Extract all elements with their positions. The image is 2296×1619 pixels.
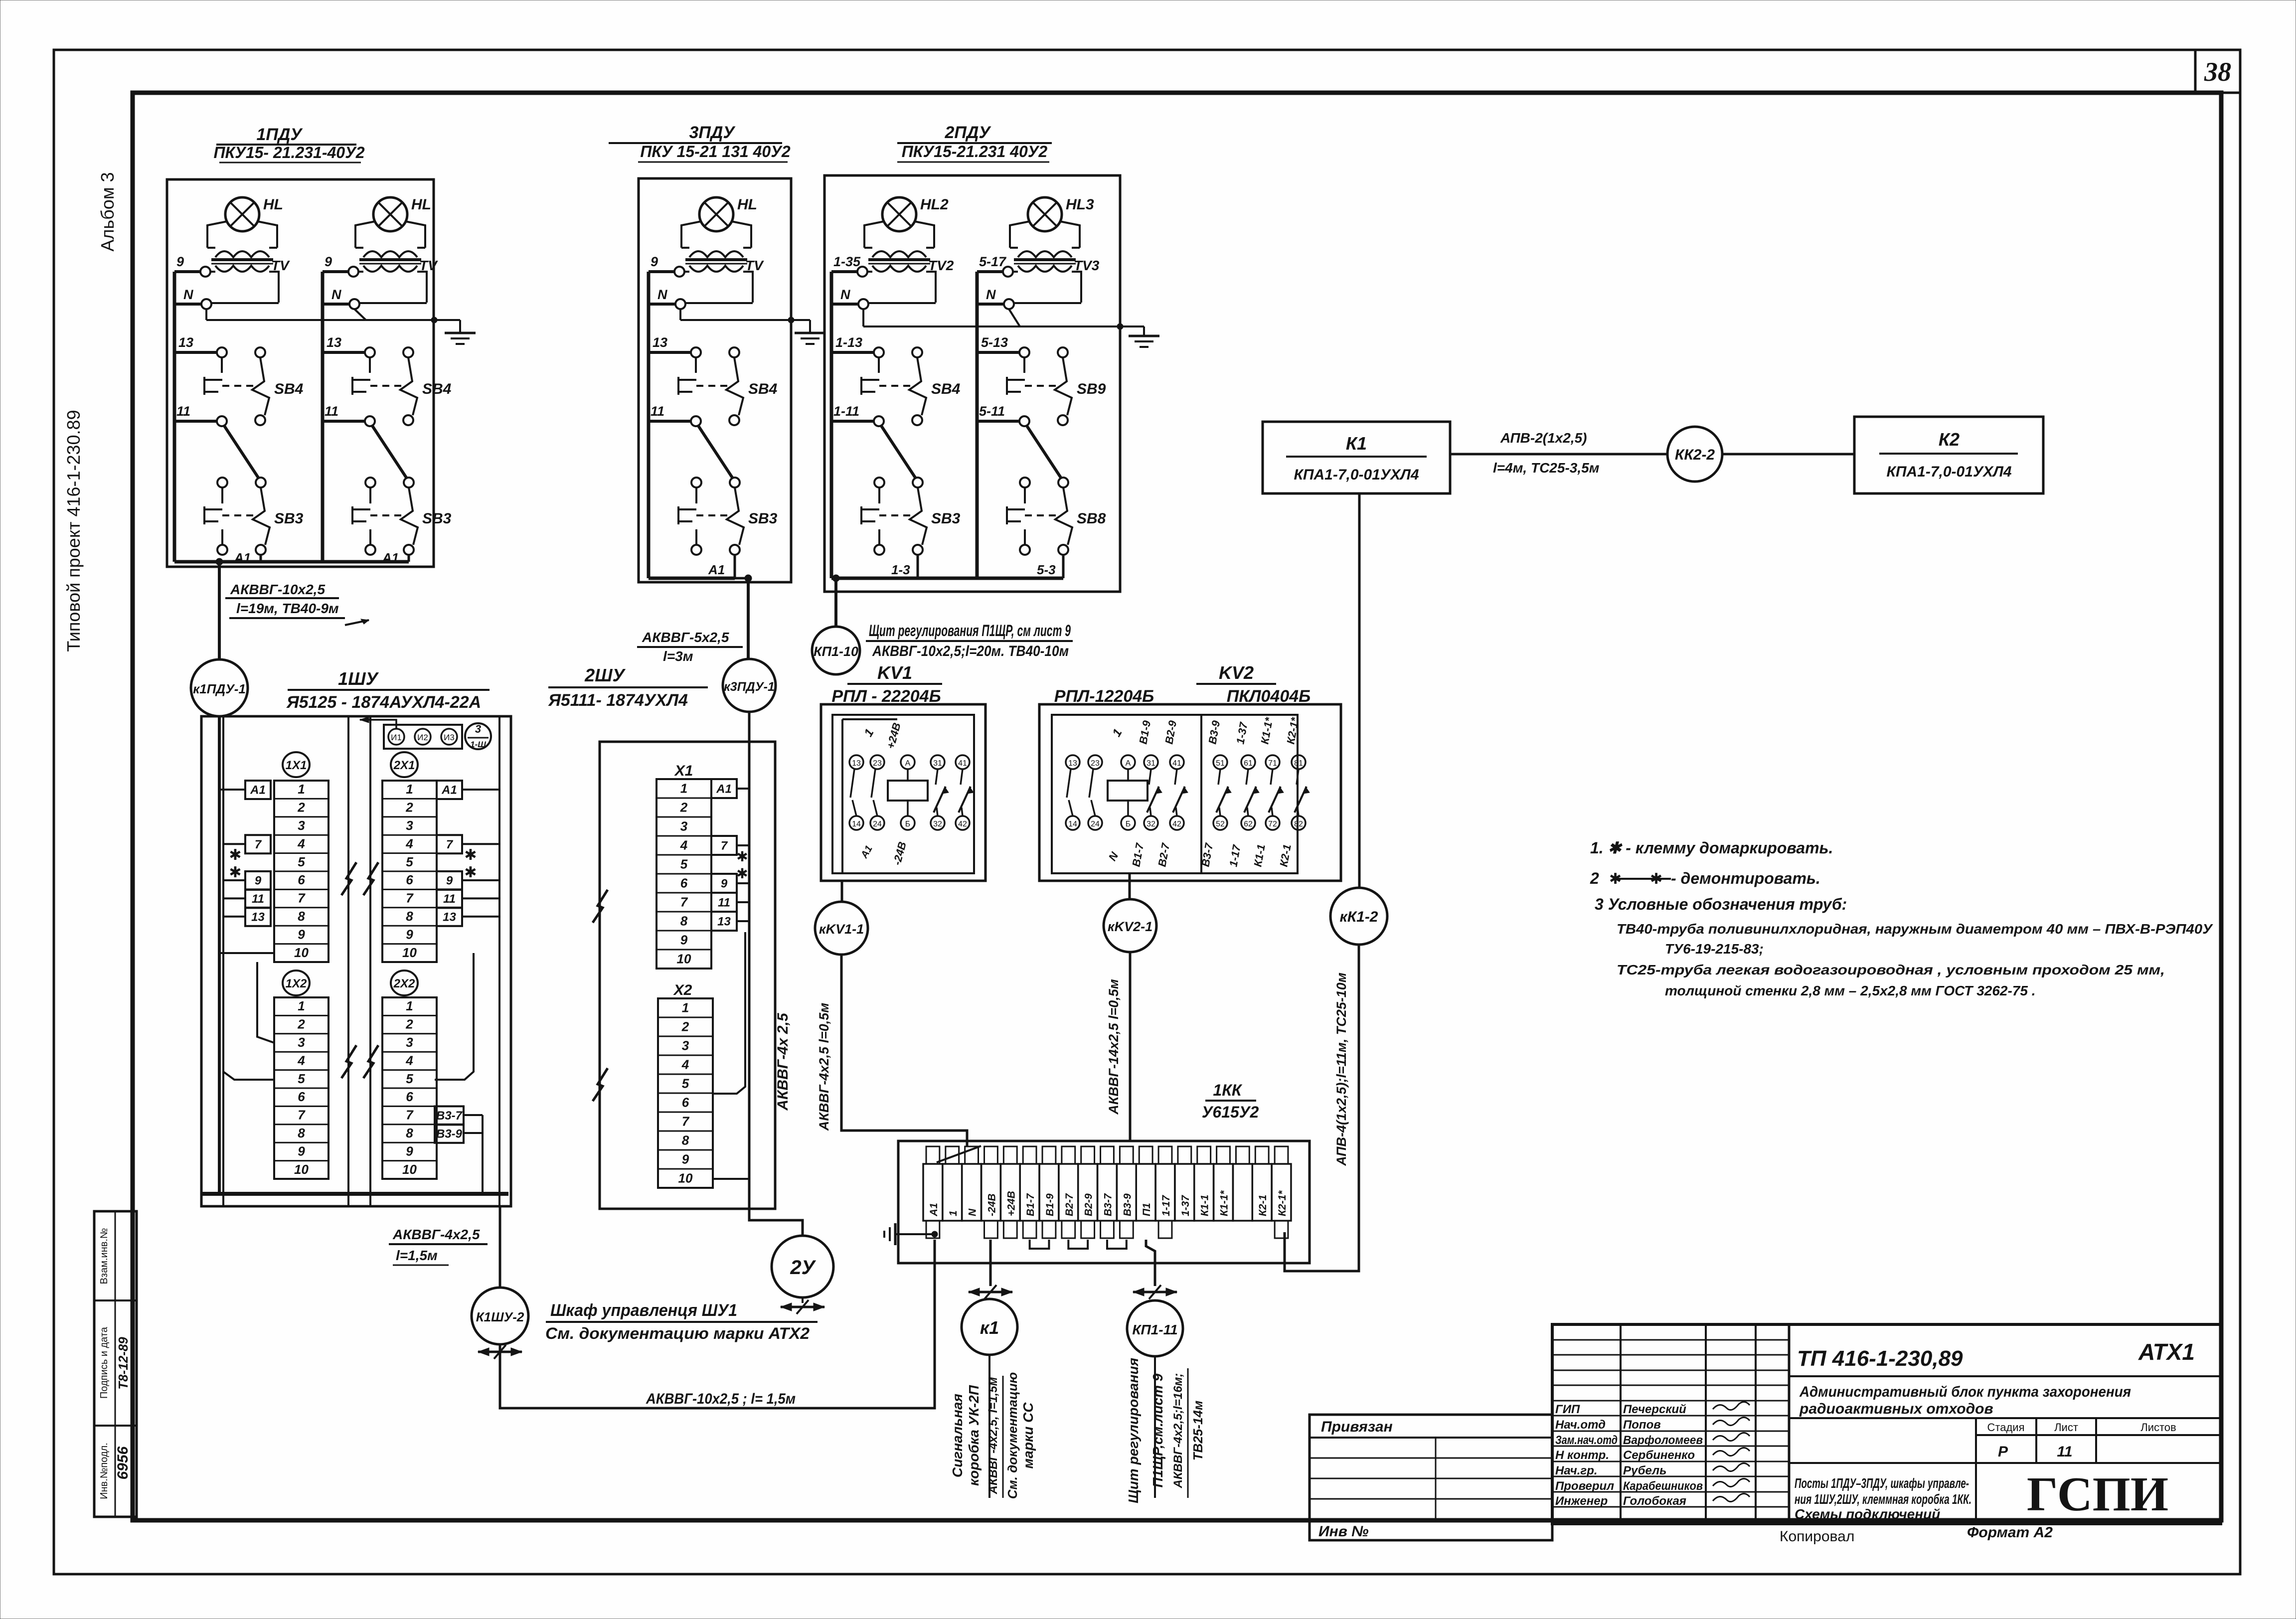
svg-text:11: 11 bbox=[443, 892, 456, 906]
svg-text:11: 11 bbox=[651, 404, 664, 419]
svg-text:АКВВГ-4х2,5 l=0,5м: АКВВГ-4х2,5 l=0,5м bbox=[817, 1003, 831, 1132]
svg-text:24: 24 bbox=[873, 820, 882, 828]
terminal tag 7 (1X1) bbox=[245, 835, 271, 853]
svg-text:SB9: SB9 bbox=[1077, 381, 1106, 397]
ground (1KK) bbox=[884, 1223, 938, 1245]
svg-text:1: 1 bbox=[298, 782, 305, 797]
svg-text:1: 1 bbox=[680, 781, 687, 796]
svg-text:7: 7 bbox=[255, 838, 262, 851]
svg-text:14: 14 bbox=[1068, 820, 1077, 828]
terminal tag 11 (2SHU X1) bbox=[711, 893, 737, 912]
svg-text:1. ✱ - клемму домаркировать.: 1. ✱ - клемму домаркировать. bbox=[1590, 839, 1833, 857]
svg-text:3: 3 bbox=[406, 1035, 413, 1050]
svg-text:П1: П1 bbox=[1141, 1203, 1152, 1216]
terminal tag A1 (1X1) bbox=[245, 781, 271, 799]
terminal tag A1 (2SHU X1) bbox=[711, 779, 737, 798]
svg-text:1-37: 1-37 bbox=[1180, 1195, 1191, 1216]
svg-text:5-3: 5-3 bbox=[1037, 562, 1056, 577]
wire cable drop 1PDU to K1PDU-1 bbox=[216, 558, 223, 659]
svg-text:62: 62 bbox=[1244, 820, 1253, 828]
svg-text:АПВ-2(1х2,5): АПВ-2(1х2,5) bbox=[1500, 430, 1587, 446]
svg-text:1ШУ: 1ШУ bbox=[338, 668, 379, 689]
svg-text:9: 9 bbox=[651, 254, 658, 269]
terminal strip 2X2 bbox=[382, 971, 437, 1179]
svg-text:SB4: SB4 bbox=[748, 381, 778, 397]
wire to ground 3PDU bbox=[791, 320, 810, 333]
svg-text:2: 2 bbox=[1590, 869, 1599, 887]
svg-text:кKV1-1: кKV1-1 bbox=[819, 922, 864, 937]
svg-text:-24В: -24В bbox=[986, 1193, 997, 1216]
terminal box 1KK enclosure bbox=[898, 1141, 1310, 1263]
svg-text:10: 10 bbox=[402, 1162, 417, 1177]
wire cable drop 2PDU to KP1-10 bbox=[832, 575, 839, 627]
svg-text:В3-9: В3-9 bbox=[436, 1127, 463, 1140]
label Shkaf upravleniya ShU1 bbox=[545, 1301, 818, 1342]
terminal strip 1X2 bbox=[274, 971, 328, 1179]
svg-text:7: 7 bbox=[680, 894, 688, 909]
svg-text:3ПДУ: 3ПДУ bbox=[689, 123, 736, 142]
svg-text:ГСПИ: ГСПИ bbox=[2027, 1467, 2168, 1521]
terminal tag 7 (2SHU X1) bbox=[711, 836, 737, 855]
wire K1 drop to KK1-2 bbox=[1358, 493, 1361, 888]
svg-text:Б: Б bbox=[905, 820, 911, 828]
svg-text:ПКУ15-21.231 40У2: ПКУ15-21.231 40У2 bbox=[902, 143, 1048, 161]
terminal tag 13 (2X1) bbox=[437, 908, 462, 926]
svg-text:13: 13 bbox=[327, 335, 341, 350]
svg-text:N: N bbox=[657, 287, 667, 302]
svg-text:9: 9 bbox=[298, 1143, 305, 1158]
svg-text:1-Ш: 1-Ш bbox=[470, 740, 486, 749]
svg-text:KV2: KV2 bbox=[1219, 662, 1254, 683]
svg-text:✱: ✱ bbox=[736, 849, 748, 864]
wire 1KK to KP1-11 bbox=[1146, 1240, 1155, 1286]
svg-text:Я5111- 1874УХЛ4: Я5111- 1874УХЛ4 bbox=[548, 691, 688, 710]
note 3 uslovnye oboznacheniya bbox=[1595, 895, 1847, 913]
svg-text:Щит регулирования П1ЩР, см: Щит регулирования П1ЩР, см лист 9 bbox=[869, 622, 1071, 640]
svg-text:SB4: SB4 bbox=[274, 381, 304, 397]
svg-text:коробка УК-2П: коробка УК-2П bbox=[966, 1385, 982, 1486]
wire KV2 drop bbox=[1129, 873, 1131, 899]
svg-text:N: N bbox=[840, 287, 850, 302]
cable label APV-4(1x2.5) l=11m TS25-10m bbox=[1334, 972, 1349, 1166]
svg-text:HL: HL bbox=[263, 196, 283, 213]
cable label AKVVG-5x2.5 l=3m bbox=[637, 630, 743, 664]
svg-text:2ШУ: 2ШУ bbox=[584, 665, 626, 685]
node K1 (signal box link) bbox=[962, 1299, 1017, 1355]
cable label AKVVG-4x2.5 l=1.5m (1SHU) bbox=[389, 1227, 488, 1265]
stamp column Vzam.inv / Podpis i data / Inv.N podl. bbox=[94, 1211, 137, 1517]
wire jumpers below 1KK bbox=[1030, 1240, 1127, 1249]
svg-text:9: 9 bbox=[682, 1151, 689, 1166]
svg-text:АКВВГ-10х2,5;l=20м. ТВ40-10м: АКВВГ-10х2,5;l=20м. ТВ40-10м bbox=[872, 643, 1069, 659]
wire neutral 3PDU bbox=[680, 309, 794, 323]
terminal tag 13 (2SHU X1) bbox=[711, 912, 737, 931]
post 2PDU header bbox=[897, 123, 1052, 162]
svg-text:13: 13 bbox=[653, 335, 667, 350]
note TV40 bbox=[1617, 921, 2213, 957]
svg-text:24: 24 bbox=[1091, 820, 1100, 828]
svg-text:- демонтировать.: - демонтировать. bbox=[1671, 869, 1820, 887]
svg-text:2X1: 2X1 bbox=[393, 759, 415, 772]
wire KV1 internal bus bbox=[842, 719, 897, 873]
cable crossing mark below K1SHU-2 bbox=[478, 1345, 522, 1359]
svg-text:✱: ✱ bbox=[736, 866, 748, 881]
wire phase bus 1PDU right bbox=[321, 272, 325, 562]
svg-text:АКВВГ-4х2,5;l=16м;: АКВВГ-4х2,5;l=16м; bbox=[1171, 1373, 1185, 1489]
svg-text:Сербиненко: Сербиненко bbox=[1623, 1449, 1695, 1462]
svg-text:HL2: HL2 bbox=[920, 196, 949, 213]
device box K2 bbox=[1854, 417, 2043, 493]
svg-text:10: 10 bbox=[678, 1170, 693, 1185]
svg-text:Проверил: Проверил bbox=[1555, 1479, 1614, 1493]
lamp HL (1PDU left) bbox=[174, 196, 290, 309]
svg-text:8: 8 bbox=[298, 909, 305, 924]
svg-text:Попов: Попов bbox=[1623, 1418, 1661, 1432]
post 2PDU enclosure bbox=[824, 175, 1120, 592]
relay KV2 contacts and coil bbox=[1066, 755, 1310, 830]
svg-text:82: 82 bbox=[1294, 820, 1303, 828]
wire bottom bus 2PDU bbox=[831, 577, 1063, 580]
svg-text:5-17: 5-17 bbox=[979, 254, 1007, 269]
pushbuttons SB4/SB3 (1PDU right) bbox=[323, 335, 452, 565]
stamp Privyazan box bbox=[1310, 1415, 1552, 1540]
terminal strip 1X1 bbox=[274, 752, 328, 962]
relay KV2 enclosure bbox=[1039, 704, 1341, 881]
svg-text:5: 5 bbox=[298, 854, 305, 869]
svg-text:1-3: 1-3 bbox=[891, 562, 910, 577]
wire to ground 2PDU bbox=[1120, 326, 1144, 336]
node KP1-11 bbox=[1127, 1300, 1183, 1356]
svg-text:3: 3 bbox=[298, 818, 305, 833]
svg-text:32: 32 bbox=[933, 820, 942, 828]
label Shchit regulirovaniya P1ShchR sm list 9 bbox=[866, 622, 1073, 659]
svg-text:9: 9 bbox=[298, 927, 305, 942]
svg-text:кК1-2: кК1-2 bbox=[1339, 909, 1378, 925]
svg-text:2: 2 bbox=[405, 800, 413, 815]
wire phase bus 1PDU left bbox=[173, 272, 176, 562]
svg-text:В2-9: В2-9 bbox=[1083, 1193, 1095, 1216]
svg-text:ТУ6-19-215-83;: ТУ6-19-215-83; bbox=[1665, 941, 1764, 957]
svg-text:l=3м: l=3м bbox=[663, 648, 693, 664]
svg-text:кKV2-1: кKV2-1 bbox=[1108, 919, 1152, 934]
relay KV2 header bbox=[1054, 662, 1311, 706]
svg-text:31: 31 bbox=[933, 759, 942, 768]
svg-text:42: 42 bbox=[958, 820, 967, 828]
wire KK1-2 to 1KK bbox=[1285, 945, 1359, 1271]
cable crossing mark above KP1-11 bbox=[1133, 1285, 1177, 1299]
wire drop 1SHU to K1SHU-2 bbox=[499, 1206, 501, 1288]
terminal tag 7 (2X1) bbox=[437, 835, 462, 853]
wire bottom bus 3PDU bbox=[649, 577, 748, 580]
svg-text:✱: ✱ bbox=[464, 864, 477, 881]
svg-text:Карабешников: Карабешников bbox=[1623, 1479, 1703, 1493]
wire KKV2-1 to 1KK bbox=[1129, 952, 1132, 1141]
terminal tag V3-9 (2X2) bbox=[435, 1125, 464, 1143]
terminal tag 9 (1X1) bbox=[245, 871, 271, 890]
junction box I1 I2 I3 bbox=[360, 717, 462, 749]
svg-text:к3ПДУ-1: к3ПДУ-1 bbox=[724, 680, 775, 694]
svg-text:2: 2 bbox=[405, 1017, 413, 1032]
svg-text:2ПДУ: 2ПДУ bbox=[945, 123, 992, 142]
svg-text:9: 9 bbox=[255, 874, 262, 888]
svg-text:5: 5 bbox=[406, 854, 413, 869]
node KK2-2 bbox=[1667, 427, 1722, 482]
node KK1-2 bbox=[1330, 888, 1387, 945]
svg-text:1: 1 bbox=[948, 1210, 959, 1216]
wire 1KK to K1 box circle bbox=[989, 1240, 992, 1286]
svg-text:КП1-10: КП1-10 bbox=[814, 644, 858, 659]
wire 1X2 feed bbox=[223, 969, 274, 1080]
cable label AKVVG-10x2.5 l=1.5m (run) bbox=[646, 1391, 796, 1407]
svg-text:11: 11 bbox=[2057, 1444, 2072, 1460]
svg-text:3: 3 bbox=[406, 818, 413, 833]
pushbuttons SB4/SB3 (2PDU left) bbox=[831, 335, 961, 578]
wire 2SHU to 2U bbox=[749, 1209, 803, 1236]
svg-text:SB4: SB4 bbox=[931, 381, 961, 397]
svg-text:Лист: Лист bbox=[2054, 1421, 2078, 1434]
svg-text:3: 3 bbox=[680, 818, 688, 833]
svg-text:32: 32 bbox=[1147, 820, 1155, 828]
svg-text:11: 11 bbox=[718, 896, 730, 909]
svg-text:11: 11 bbox=[252, 892, 264, 906]
svg-text:к1ПДУ-1: к1ПДУ-1 bbox=[193, 681, 246, 696]
svg-text:7: 7 bbox=[406, 891, 414, 906]
footer labels bbox=[1780, 1524, 2053, 1545]
lamp HL3 (2PDU) bbox=[977, 196, 1100, 309]
svg-text:АКВВГ-4х 2,5: АКВВГ-4х 2,5 bbox=[775, 1012, 791, 1111]
svg-text:И2: И2 bbox=[417, 733, 428, 742]
cable label AKVVG-4x2.5 (2U riser) bbox=[775, 1012, 791, 1111]
svg-text:Посты 1ПДУ–3ПДУ, шкафы управле: Посты 1ПДУ–3ПДУ, шкафы управле- bbox=[1795, 1475, 1969, 1491]
svg-text:81: 81 bbox=[1294, 759, 1303, 768]
demount asterisks (1X1) bbox=[229, 847, 241, 881]
title block sheet name bbox=[1795, 1475, 1971, 1522]
svg-text:ПКУ15- 21.231-40У2: ПКУ15- 21.231-40У2 bbox=[213, 144, 364, 162]
terminal strip X2 (2SHU) bbox=[658, 982, 713, 1188]
svg-text:ГИП: ГИП bbox=[1555, 1403, 1580, 1416]
title block doc number TP 416-1-230.89 bbox=[1789, 1339, 2221, 1376]
pushbuttons SB4/SB3 (3PDU) bbox=[649, 335, 778, 578]
svg-text:23: 23 bbox=[1091, 759, 1100, 768]
svg-text:1КК: 1КК bbox=[1213, 1081, 1242, 1099]
svg-text:42: 42 bbox=[1172, 820, 1181, 828]
cabinet 1SHU enclosure bbox=[201, 716, 511, 1206]
svg-text:Т8-12-89: Т8-12-89 bbox=[116, 1337, 131, 1390]
note ref circle 3 bbox=[465, 723, 491, 749]
svg-text:ПКЛ0404Б: ПКЛ0404Б bbox=[1227, 687, 1311, 706]
terminal cells 1KK bbox=[923, 1146, 1291, 1221]
svg-text:В3-7: В3-7 bbox=[1103, 1193, 1114, 1216]
svg-text:52: 52 bbox=[1216, 820, 1225, 828]
svg-text:38: 38 bbox=[2204, 57, 2231, 87]
svg-text:4: 4 bbox=[681, 1057, 689, 1072]
svg-text:41: 41 bbox=[958, 759, 967, 768]
caption Tipovoy proekt 416-1-230.89 bbox=[63, 410, 84, 651]
svg-text:X2: X2 bbox=[673, 982, 692, 998]
svg-text:В3-7: В3-7 bbox=[436, 1109, 463, 1123]
lamp HL (1PDU right) bbox=[323, 196, 438, 309]
svg-text:ТВ40-труба поливинилхлоридная,: ТВ40-труба поливинилхлоридная, наружным … bbox=[1617, 921, 2213, 937]
svg-text:9: 9 bbox=[721, 877, 728, 890]
svg-text:Щит регулирования: Щит регулирования bbox=[1126, 1358, 1141, 1503]
svg-text:SB8: SB8 bbox=[1077, 510, 1106, 527]
svg-text:6: 6 bbox=[406, 872, 413, 887]
wire bottom bus 1PDU bbox=[174, 560, 409, 564]
svg-text:l=1,5м: l=1,5м bbox=[396, 1248, 438, 1263]
ground (1PDU) bbox=[445, 333, 476, 344]
svg-text:41: 41 bbox=[1172, 759, 1181, 768]
svg-text:1-13: 1-13 bbox=[835, 335, 862, 350]
svg-text:И3: И3 bbox=[444, 733, 455, 742]
svg-text:✱: ✱ bbox=[229, 847, 241, 863]
terminal tag V3-7 (2X2) bbox=[435, 1106, 464, 1125]
svg-text:АКВВГ-10х2,5 ; l= 1,5м: АКВВГ-10х2,5 ; l= 1,5м bbox=[646, 1391, 796, 1407]
svg-text:Инв.№подл.: Инв.№подл. bbox=[99, 1443, 110, 1499]
wire bottom bus 1SHU bbox=[201, 1192, 508, 1196]
cabinet 1SHU header bbox=[286, 668, 490, 712]
svg-text:1: 1 bbox=[298, 998, 305, 1013]
wire KV1 entry into 1KK bbox=[937, 1131, 981, 1162]
svg-text:8: 8 bbox=[298, 1126, 305, 1140]
svg-text:К1-1: К1-1 bbox=[1199, 1195, 1211, 1216]
svg-text:1X2: 1X2 bbox=[286, 977, 307, 990]
relay KV1 header bbox=[831, 662, 942, 706]
node K1PDU-1 bbox=[191, 659, 248, 716]
wire K1 to KK2-2 bbox=[1450, 453, 1667, 456]
cable label AKVVG-4x2.5 l=0.5m (KV1) bbox=[817, 1003, 831, 1132]
wire neutral 2PDU bbox=[863, 309, 1123, 329]
svg-text:1-17: 1-17 bbox=[1160, 1195, 1172, 1216]
note 1 asterisk bbox=[1590, 839, 1833, 857]
cable crossing mark below 2U bbox=[781, 1297, 824, 1314]
svg-text:l=4м, ТС25-3,5м: l=4м, ТС25-3,5м bbox=[1493, 460, 1600, 476]
node 2U bbox=[772, 1236, 833, 1297]
title block signatures column bbox=[1555, 1402, 1750, 1508]
wire phase bus 2PDU left bbox=[830, 272, 833, 578]
svg-text:АКВВГ-14х2,5 l=0,5м: АКВВГ-14х2,5 l=0,5м bbox=[1106, 979, 1121, 1115]
post 3PDU header bbox=[609, 123, 791, 162]
svg-text:РПЛ - 22204Б: РПЛ - 22204Б bbox=[831, 687, 941, 706]
svg-text:51: 51 bbox=[1216, 759, 1225, 768]
svg-text:АКВВГ-4х2,5: АКВВГ-4х2,5 bbox=[392, 1227, 480, 1242]
terminal box 1KK header bbox=[1202, 1081, 1259, 1121]
svg-text:ПКУ 15-21 131 40У2: ПКУ 15-21 131 40У2 bbox=[640, 143, 791, 161]
svg-text:8: 8 bbox=[406, 909, 413, 924]
svg-text:АТХ1: АТХ1 bbox=[2138, 1339, 2195, 1365]
svg-text:2: 2 bbox=[681, 1019, 689, 1034]
svg-text:Варфоломеев: Варфоломеев bbox=[1623, 1434, 1703, 1447]
svg-text:У615У2: У615У2 bbox=[1202, 1103, 1259, 1121]
cable crossing mark above K1 circle bbox=[969, 1285, 1012, 1299]
svg-text:72: 72 bbox=[1268, 820, 1277, 828]
svg-text:АКВВГ-5х2,5: АКВВГ-5х2,5 bbox=[642, 630, 729, 645]
svg-text:А: А bbox=[905, 759, 911, 768]
svg-text:5: 5 bbox=[406, 1071, 413, 1086]
svg-text:7: 7 bbox=[298, 891, 306, 906]
cable label AKVVG-10x2.5 l=19m TV40-9m bbox=[225, 582, 369, 625]
cable label AKVVG-14x2.5 l=0.5m (KV2) bbox=[1106, 979, 1121, 1115]
svg-text:8: 8 bbox=[406, 1126, 413, 1140]
svg-text:13: 13 bbox=[251, 910, 265, 924]
svg-text:5: 5 bbox=[682, 1076, 689, 1091]
wire below KP1-11 bbox=[1154, 1356, 1156, 1498]
svg-text:К1-1*: К1-1* bbox=[1219, 1190, 1230, 1216]
svg-text:А1: А1 bbox=[716, 782, 732, 796]
svg-text:толщиной стенки 2,8 мм – 2: толщиной стенки 2,8 мм – 2,5х2,8 мм ГОСТ… bbox=[1665, 983, 2036, 998]
wire KKV1-1 to 1KK bbox=[841, 955, 967, 1146]
svg-text:SB4: SB4 bbox=[422, 381, 452, 397]
svg-text:АКВВГ-10х2,5: АКВВГ-10х2,5 bbox=[230, 582, 325, 597]
svg-text:N: N bbox=[331, 287, 341, 302]
svg-text:✱: ✱ bbox=[464, 847, 477, 863]
device box K1 bbox=[1263, 422, 1450, 493]
wire phase bus 2PDU right bbox=[976, 272, 979, 578]
svg-text:Привязан: Привязан bbox=[1321, 1419, 1393, 1435]
post 1PDU enclosure bbox=[167, 179, 434, 567]
svg-text:10: 10 bbox=[677, 951, 691, 966]
svg-text:К1: К1 bbox=[1346, 433, 1367, 454]
terminal bottom tabs 1KK bbox=[926, 1221, 1288, 1238]
svg-text:Формат А2: Формат А2 bbox=[1967, 1524, 2053, 1541]
svg-text:5: 5 bbox=[298, 1071, 305, 1086]
wire bus K1PDU-1 in 1SHU bbox=[219, 716, 274, 1194]
terminal tag A1 (2X1) bbox=[437, 781, 462, 799]
svg-text:7: 7 bbox=[446, 838, 454, 851]
wire stubs 2X1 right bbox=[462, 790, 499, 917]
demount asterisks (2X1) bbox=[464, 847, 477, 881]
title block stage/sheet grid bbox=[1789, 1418, 2221, 1524]
svg-text:РПЛ-12204Б: РПЛ-12204Б bbox=[1054, 687, 1154, 706]
svg-text:2У: 2У bbox=[790, 1257, 816, 1279]
svg-text:6: 6 bbox=[298, 872, 305, 887]
terminal tag 11 (2X1) bbox=[437, 889, 462, 908]
svg-text:6: 6 bbox=[298, 1089, 305, 1104]
wire K1SHU-2 run to 1KK bbox=[500, 1240, 935, 1408]
svg-text:6: 6 bbox=[680, 875, 688, 890]
svg-text:Голобокая: Голобокая bbox=[1623, 1494, 1686, 1508]
svg-text:4: 4 bbox=[297, 836, 305, 851]
logo GSPI bbox=[2027, 1467, 2168, 1521]
svg-text:радиоактивных отходов: радиоактивных отходов bbox=[1799, 1401, 1993, 1417]
relay KV1 labels bbox=[858, 721, 909, 866]
svg-text:4: 4 bbox=[405, 836, 413, 851]
ground (3PDU) bbox=[795, 333, 825, 344]
svg-text:А1: А1 bbox=[928, 1203, 940, 1217]
svg-text:5: 5 bbox=[680, 856, 688, 871]
svg-text:10: 10 bbox=[402, 945, 417, 960]
svg-text:Инженер: Инженер bbox=[1555, 1494, 1608, 1508]
demount asterisks (2SHU) bbox=[736, 849, 748, 881]
wire KK2-2 to K2 bbox=[1722, 453, 1854, 456]
terminal tag 9 (2X1) bbox=[437, 871, 462, 890]
svg-text:Шкаф управленця ШУ1: Шкаф управленця ШУ1 bbox=[550, 1301, 737, 1320]
svg-text:KV1: KV1 bbox=[877, 662, 912, 683]
ground (2PDU) bbox=[1129, 336, 1159, 347]
svg-text:Схемы подключений: Схемы подключений bbox=[1795, 1506, 1940, 1522]
svg-text:61: 61 bbox=[1244, 759, 1253, 768]
cable break marks 1SHU upper bbox=[341, 862, 378, 895]
svg-text:АКВВГ-4х2,5, l=1,5м: АКВВГ-4х2,5, l=1,5м bbox=[986, 1377, 1000, 1494]
caption Album 3 bbox=[97, 172, 118, 251]
svg-text:К1ШУ-2: К1ШУ-2 bbox=[476, 1309, 524, 1324]
wire 2X2 feed bbox=[435, 953, 474, 1080]
svg-text:И1: И1 bbox=[391, 733, 402, 742]
post 1PDU header bbox=[213, 125, 364, 162]
cabinet 2SHU enclosure bbox=[600, 742, 775, 1209]
node K1SHU-2 bbox=[472, 1288, 528, 1344]
svg-text:К2: К2 bbox=[1939, 429, 1960, 450]
svg-text:Печерский: Печерский bbox=[1623, 1403, 1686, 1416]
